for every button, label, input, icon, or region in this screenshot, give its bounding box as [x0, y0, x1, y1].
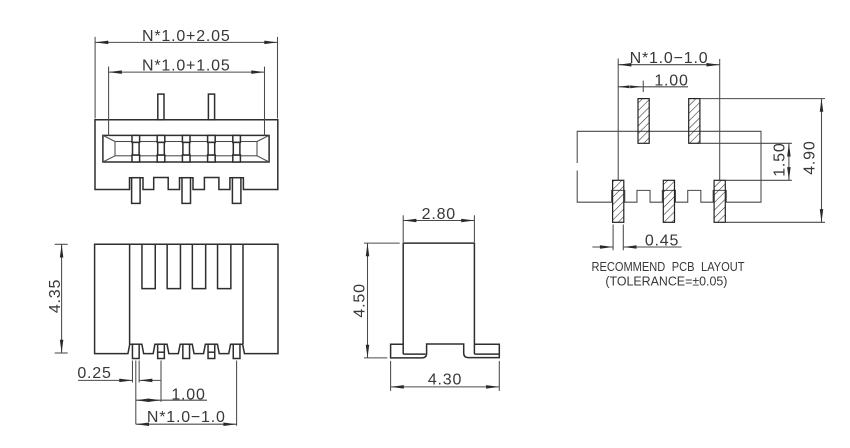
view1 solder leg 1 — [132, 178, 141, 204]
view2 pin 5 — [233, 344, 240, 358]
view1 contact 2 — [157, 135, 165, 162]
view1 solder leg 3 — [232, 178, 241, 204]
view3 body top and sides — [403, 243, 474, 354]
svg-text:4.30: 4.30 — [428, 371, 462, 388]
dimension N*1.0+2.05 — [95, 28, 277, 118]
view1 contact 5 — [233, 135, 241, 162]
svg-text:1.50: 1.50 — [771, 142, 788, 176]
dimension 1.00 (pcb) — [618, 73, 688, 93]
svg-text:RECOMMEND PCB LAYOUT: RECOMMEND PCB LAYOUT — [592, 259, 745, 274]
dimension 4.50 — [351, 243, 399, 358]
svg-text:N*1.0+1.05: N*1.0+1.05 — [142, 57, 231, 74]
svg-text:N*1.0−1.0: N*1.0−1.0 — [630, 50, 709, 67]
view2 slot 2 — [167, 244, 180, 288]
view2 pin 3 — [183, 344, 190, 358]
svg-text:4.90: 4.90 — [801, 140, 818, 174]
view1 body outline with bottom notches — [95, 120, 278, 190]
dimension 4.90 (pcb) — [700, 99, 825, 223]
pcb pad top B (hatched) — [689, 99, 700, 144]
dimension 2.80 — [403, 206, 474, 242]
dimension 0.45 (pcb) — [592, 225, 681, 251]
dimension 4.35 — [47, 244, 68, 353]
dimension N*1.0-1.0 (view2) — [136, 361, 237, 426]
dimension N*1.0-1.0 (pcb) — [618, 50, 720, 180]
dimension 1.50 (pcb) — [700, 142, 792, 180]
svg-text:0.25: 0.25 — [77, 365, 111, 382]
view2 slot 1 — [142, 244, 155, 288]
view1 top boss pin right — [208, 94, 214, 120]
view2 slot 4 — [218, 244, 231, 288]
pcb pad top A (hatched) — [638, 99, 649, 144]
view1 slot inner bevel rectangle — [115, 142, 257, 156]
svg-text:1.00: 1.00 — [171, 386, 205, 403]
view2 slot 3 — [192, 244, 205, 288]
pcb pad bottom 1 (hatched) — [613, 180, 624, 222]
pcb outline with bottom notches — [577, 131, 761, 202]
note (TOLERANCE=±0.05) — [605, 273, 727, 288]
view1 contact 4 — [208, 135, 216, 162]
view2 inner wall line right — [242, 244, 244, 344]
view1 slot outer rectangle — [103, 135, 269, 162]
svg-text:4.35: 4.35 — [47, 279, 64, 313]
dimension 4.30 — [391, 361, 500, 391]
pcb pad bottom 2 (hatched) — [663, 180, 674, 222]
view1 bevel corner lines — [103, 135, 269, 162]
svg-text:N*1.0+2.05: N*1.0+2.05 — [142, 28, 231, 45]
view2 inner wall line left — [129, 244, 131, 344]
view1 contact 1 — [132, 135, 140, 162]
svg-text:0.45: 0.45 — [645, 233, 679, 250]
dimension 1.00 (view2) — [136, 361, 207, 425]
pcb pad bottom 3 (hatched) — [714, 180, 725, 222]
svg-text:N*1.0−1.0: N*1.0−1.0 — [147, 409, 226, 426]
svg-text:(TOLERANCE=±0.05): (TOLERANCE=±0.05) — [605, 273, 727, 288]
svg-text:4.50: 4.50 — [351, 283, 368, 317]
view2 pin 1 — [132, 344, 139, 358]
dimension N*1.0+1.05 — [109, 57, 265, 136]
view1 contact 3 — [182, 135, 190, 162]
svg-text:2.80: 2.80 — [422, 206, 456, 223]
view2 body outline with bottom notches — [95, 244, 278, 353]
note RECOMMEND PCB LAYOUT — [592, 259, 745, 274]
view3 base and feet profile — [391, 344, 500, 358]
view2 pin 2 — [158, 344, 165, 358]
view1 solder leg 2 — [182, 178, 191, 204]
dimension 0.25 — [77, 361, 160, 383]
view1 top boss pin left — [158, 94, 164, 120]
svg-text:1.00: 1.00 — [654, 73, 688, 90]
view2 pin 4 — [208, 344, 215, 358]
